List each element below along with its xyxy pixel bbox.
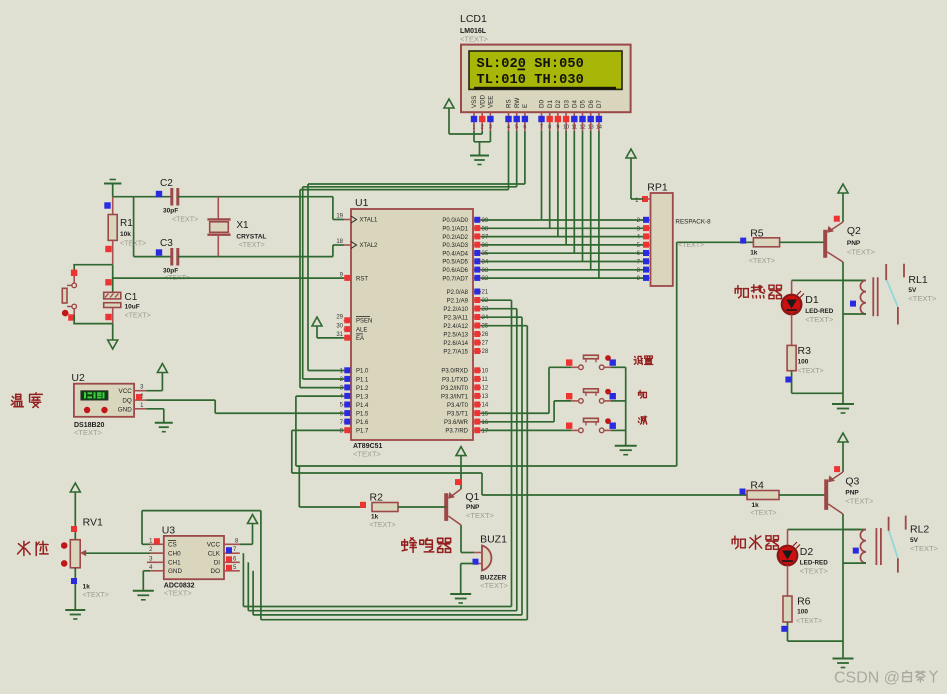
power +5V arrow (Q1)	[455, 447, 466, 489]
svg-text:VSS: VSS	[471, 96, 478, 108]
svg-text:P3.0/RXD: P3.0/RXD	[441, 369, 468, 375]
svg-text:<TEXT>: <TEXT>	[805, 315, 834, 324]
svg-text:4: 4	[507, 125, 510, 131]
svg-text:36: 36	[482, 243, 489, 249]
LCD1 LM016L display module body	[461, 45, 631, 113]
capacitor C1 10uF electrolytic	[104, 292, 151, 324]
svg-text:7: 7	[540, 125, 543, 131]
wire keys common to ground	[611, 367, 626, 445]
U1 left pins XTAL1 XTAL2 RST PSEN ALE EA	[336, 214, 378, 342]
LCD1 labels	[460, 13, 489, 44]
svg-text:1k: 1k	[371, 514, 379, 521]
svg-text:30pF: 30pF	[163, 208, 178, 215]
svg-text:VEE: VEE	[488, 96, 495, 108]
svg-text:<TEXT>: <TEXT>	[845, 497, 874, 506]
svg-text:P2.2/A10: P2.2/A10	[443, 307, 468, 313]
power +5V arrow (U3 VCC)	[240, 515, 258, 545]
svg-text:<TEXT>: <TEXT>	[172, 217, 198, 224]
svg-text:18: 18	[336, 239, 343, 245]
svg-text:D3: D3	[563, 100, 570, 108]
svg-text:R3: R3	[798, 345, 812, 357]
LCD1 pins with state squares	[471, 112, 602, 131]
svg-text:D2: D2	[800, 546, 814, 558]
svg-text:<TEXT>: <TEXT>	[800, 567, 829, 576]
svg-text:RL1: RL1	[908, 274, 927, 286]
svg-text:EA: EA	[356, 336, 364, 342]
svg-text:R6: R6	[797, 596, 811, 608]
svg-text:P1.7: P1.7	[356, 429, 369, 435]
svg-text:3: 3	[489, 125, 492, 131]
svg-text:15: 15	[482, 411, 489, 417]
svg-text:P3.5/T1: P3.5/T1	[447, 411, 469, 417]
U1 P0.0-P0.7 pins	[442, 217, 489, 282]
svg-text:CH1: CH1	[168, 560, 181, 567]
RP1 pins 2-9	[637, 217, 651, 282]
wire + key to P3.6	[481, 401, 571, 422]
watermark 白茶丫	[903, 671, 937, 682]
svg-text:<TEXT>: <TEXT>	[908, 294, 937, 303]
ADC U3 ADC0832	[147, 525, 240, 598]
svg-text:D5: D5	[580, 100, 587, 108]
wire LCD data bus D0-D7 to P0	[542, 131, 599, 278]
capacitor C2 30pF	[156, 178, 198, 224]
svg-text:P1.1: P1.1	[356, 377, 369, 383]
wire buzzer to ground	[461, 564, 474, 595]
relay RL2 coil	[843, 528, 881, 565]
svg-text:XTAL1: XTAL1	[360, 218, 379, 224]
svg-text:LCD1: LCD1	[460, 13, 487, 25]
svg-text:U1: U1	[355, 197, 369, 209]
svg-text:24: 24	[482, 315, 489, 321]
svg-text:P0.4/AD4: P0.4/AD4	[442, 251, 468, 257]
svg-text:CLK: CLK	[208, 551, 221, 558]
svg-text:RS: RS	[506, 99, 513, 108]
svg-text:TL:010 TH:030: TL:010 TH:030	[477, 73, 584, 88]
svg-text:PNP: PNP	[847, 240, 861, 247]
svg-text:P3.4/T0: P3.4/T0	[447, 403, 469, 409]
label 加	[639, 390, 647, 398]
clock chevron XTAL2	[351, 242, 357, 249]
svg-text:P1.6: P1.6	[356, 420, 369, 426]
svg-text:P3.1/TXD: P3.1/TXD	[442, 377, 469, 383]
svg-text:E: E	[522, 104, 529, 108]
svg-text:Q1: Q1	[465, 491, 479, 503]
transistor Q3 PNP	[826, 472, 874, 514]
svg-text:2: 2	[481, 125, 484, 131]
svg-text:XTAL2: XTAL2	[360, 243, 379, 249]
svg-text:P2.3/A11: P2.3/A11	[444, 315, 469, 321]
svg-text:<TEXT>: <TEXT>	[83, 592, 109, 599]
svg-text:10: 10	[482, 369, 489, 375]
wire Q1 collector to buzzer	[461, 525, 474, 553]
svg-text:11: 11	[571, 125, 577, 131]
svg-text:35: 35	[482, 251, 489, 257]
label 减	[638, 416, 647, 424]
svg-text:39: 39	[482, 218, 489, 224]
svg-text:14: 14	[596, 125, 602, 131]
svg-text:13: 13	[482, 394, 489, 400]
label 加热器	[735, 285, 781, 299]
ground (top, R1)	[104, 180, 121, 197]
ground (RV1)	[65, 610, 85, 619]
svg-text:P2.7/A15: P2.7/A15	[443, 349, 468, 355]
power +5V arrow (LCD VDD)	[444, 99, 454, 134]
key + button (加)	[566, 389, 616, 404]
svg-text:<TEXT>: <TEXT>	[125, 313, 151, 320]
ground (pump)	[833, 659, 854, 668]
wire reset junction	[73, 265, 112, 293]
svg-text:13: 13	[588, 125, 594, 131]
svg-text:<TEXT>: <TEXT>	[370, 522, 396, 529]
svg-text:R1: R1	[120, 218, 133, 229]
svg-text:DO: DO	[211, 568, 221, 575]
resistor R4 1k	[740, 480, 827, 518]
svg-text:BUZ1: BUZ1	[480, 534, 507, 546]
svg-text:P0.3/AD3: P0.3/AD3	[442, 243, 468, 249]
svg-text:P1.3: P1.3	[356, 394, 369, 400]
svg-text:<TEXT>: <TEXT>	[749, 258, 775, 265]
svg-text:DQ: DQ	[122, 398, 132, 405]
svg-text:VCC: VCC	[207, 542, 221, 549]
svg-text:33: 33	[482, 268, 489, 274]
wire C2 to XTAL1	[178, 197, 344, 220]
relay RL1 switch contacts	[886, 264, 937, 325]
svg-text:GND: GND	[168, 568, 182, 575]
watermark CSDN	[834, 670, 900, 687]
svg-text:<TEXT>: <TEXT>	[239, 242, 265, 249]
svg-text:1: 1	[472, 125, 475, 131]
svg-text:<TEXT>: <TEXT>	[910, 544, 939, 553]
svg-text:30pF: 30pF	[163, 268, 178, 275]
svg-text:D2: D2	[555, 100, 562, 108]
svg-text:<TEXT>: <TEXT>	[466, 511, 495, 520]
svg-text:8: 8	[548, 125, 551, 131]
power symbol (down arrow) below C1	[108, 340, 118, 349]
svg-text:P0.2/AD2: P0.2/AD2	[442, 235, 468, 241]
crystal X1	[207, 197, 266, 257]
wire P0 bus to RP1	[481, 220, 643, 278]
wire - key to P3.7	[481, 429, 571, 431]
svg-text:RP1: RP1	[647, 182, 668, 194]
svg-text:<TEXT>: <TEXT>	[847, 248, 876, 257]
svg-text:P1.5: P1.5	[356, 411, 369, 417]
svg-text:P2.0/A8: P2.0/A8	[447, 290, 469, 296]
resistor pack RP1 RESPACK-8	[647, 182, 711, 287]
LED D2 LED-RED	[778, 530, 829, 597]
svg-text:27: 27	[482, 341, 489, 347]
svg-text:P3.2/INT0: P3.2/INT0	[441, 386, 469, 392]
key - button (减)	[566, 418, 616, 433]
svg-text:P0.0/AD0: P0.0/AD0	[442, 218, 468, 224]
svg-text:X1: X1	[236, 220, 249, 231]
wire bottom of reset circuit	[73, 324, 112, 340]
svg-text:PNP: PNP	[845, 490, 859, 497]
svg-text:RV1: RV1	[83, 517, 103, 529]
svg-text:P1.0: P1.0	[356, 369, 369, 375]
svg-text:P3.3/INT1: P3.3/INT1	[441, 394, 469, 400]
svg-text:P2.1/A9: P2.1/A9	[447, 298, 469, 304]
transistor Q1 PNP	[446, 489, 494, 525]
svg-text:C2: C2	[160, 178, 173, 189]
power +5V arrow (RV1)	[70, 483, 80, 540]
wire P2.1-P2.4 to ADC0832 bus	[243, 300, 527, 620]
resistor R1 10k	[104, 197, 146, 265]
svg-text:12: 12	[482, 386, 489, 392]
svg-text:CH0: CH0	[168, 551, 181, 558]
resistor R2 1k	[360, 492, 446, 530]
svg-text:RW: RW	[514, 98, 521, 108]
wire SET key to P3.5	[481, 367, 571, 413]
svg-text:28: 28	[482, 349, 489, 355]
svg-text:D0: D0	[539, 100, 546, 108]
U1 P2.0-P2.7 pins	[443, 289, 489, 356]
svg-text:RST: RST	[356, 276, 368, 282]
svg-text:<TEXT>: <TEXT>	[164, 589, 193, 598]
svg-text:37: 37	[482, 235, 489, 241]
svg-text:P3.7/RD: P3.7/RD	[445, 429, 468, 435]
svg-text:34: 34	[482, 260, 489, 266]
svg-text:D6: D6	[588, 100, 595, 108]
water level label 水位	[18, 541, 48, 555]
svg-text:26: 26	[482, 332, 489, 338]
svg-text:P0.1/AD1: P0.1/AD1	[442, 227, 468, 233]
resistor R5 1k	[740, 228, 825, 266]
svg-text:9: 9	[556, 125, 559, 131]
svg-text:32: 32	[482, 276, 489, 282]
svg-text:22: 22	[482, 298, 489, 304]
svg-text:10uF: 10uF	[125, 304, 140, 311]
svg-text:P3.6/WR: P3.6/WR	[444, 420, 469, 426]
label 设置	[634, 356, 653, 365]
wire LCD RW to P1.1	[303, 131, 517, 379]
power +5V arrow (EA)	[312, 317, 344, 338]
svg-text:5V: 5V	[908, 287, 917, 294]
label 蜂鸣器	[402, 538, 451, 553]
sensor U2 DS18B20	[71, 372, 146, 437]
svg-text:P0.6/AD6: P0.6/AD6	[442, 268, 468, 274]
svg-text:CS: CS	[168, 542, 177, 549]
svg-text:LED-RED: LED-RED	[800, 560, 828, 567]
power +5V arrow (RP1)	[626, 149, 643, 199]
wire buzzer branch to R2	[299, 466, 366, 507]
wire ground rail to C2/C3	[113, 197, 172, 257]
svg-text:P1.2: P1.2	[356, 386, 369, 392]
wire P1.3 to R5 (heater drive)	[296, 242, 754, 466]
ground (keys)	[615, 446, 637, 455]
svg-text:6: 6	[523, 125, 526, 131]
ground (U3)	[133, 571, 154, 600]
svg-text:VCC: VCC	[119, 388, 133, 395]
relay RL2 switch contacts	[889, 516, 939, 573]
svg-text:GND: GND	[118, 406, 132, 413]
svg-text:25: 25	[482, 324, 489, 330]
U1 P3.0-P3.7 pins	[441, 367, 489, 434]
svg-text:RL2: RL2	[910, 524, 929, 536]
svg-text:PNP: PNP	[466, 504, 480, 511]
svg-text:Q2: Q2	[847, 225, 861, 237]
ground (LCD)	[470, 156, 489, 165]
svg-text:C1: C1	[125, 292, 138, 303]
svg-text:D1: D1	[547, 100, 554, 108]
svg-text:16: 16	[482, 420, 489, 426]
ground (U2)	[146, 409, 173, 432]
svg-text:17: 17	[482, 428, 489, 434]
svg-text:DI: DI	[214, 560, 221, 567]
svg-text:21: 21	[482, 290, 489, 296]
svg-text:<TEXT>: <TEXT>	[750, 510, 776, 517]
wire C3 to XTAL2	[178, 245, 344, 257]
wire U3 CS to bus	[142, 511, 261, 545]
svg-text:14: 14	[482, 403, 489, 409]
svg-text:11: 11	[482, 377, 489, 383]
wire LCD VSS/VEE to ground	[474, 131, 490, 156]
svg-text:<TEXT>: <TEXT>	[480, 581, 509, 590]
transistor Q2 PNP	[825, 222, 875, 262]
svg-text:P2.5/A13: P2.5/A13	[443, 332, 468, 338]
svg-text:<TEXT>: <TEXT>	[120, 241, 146, 248]
wire P1.7 to R4 (pump drive)	[292, 430, 747, 495]
svg-text:D7: D7	[596, 100, 603, 108]
microcontroller U1 AT89C51 body	[351, 197, 473, 459]
svg-text:5V: 5V	[910, 537, 919, 544]
power +5V arrow (Q3)	[834, 433, 848, 472]
svg-text:P0.5/AD5: P0.5/AD5	[442, 260, 468, 266]
svg-text:<TEXT>: <TEXT>	[353, 450, 382, 459]
U1 P1.0-P1.7 pins	[340, 367, 369, 434]
svg-text:U3: U3	[162, 525, 176, 537]
clock chevron XTAL1	[351, 216, 357, 223]
svg-text:D1: D1	[805, 294, 819, 306]
svg-text:12: 12	[579, 125, 585, 131]
wire RV1 wiper to U3 CH0	[86, 552, 164, 554]
key SET button (设置)	[566, 355, 616, 370]
wire LCD VDD to power	[449, 133, 482, 135]
svg-text:VDD: VDD	[479, 94, 486, 108]
resistor R6 100	[781, 596, 843, 642]
svg-text:100: 100	[798, 359, 809, 366]
LED D1 LED-RED	[782, 280, 834, 345]
svg-text:RESPACK-8: RESPACK-8	[675, 219, 711, 226]
wire Q2 collector node	[792, 262, 860, 404]
buzzer BUZ1	[473, 534, 509, 591]
wire LCD RS to P1.2	[300, 131, 509, 388]
label 加水器	[732, 535, 778, 549]
power +5V arrow (U2 VCC)	[146, 364, 167, 391]
svg-text:ALE: ALE	[356, 328, 367, 334]
svg-text:Q3: Q3	[845, 476, 859, 488]
svg-text:1k: 1k	[83, 584, 91, 591]
svg-text:<TEXT>: <TEXT>	[798, 368, 824, 375]
svg-text:38: 38	[482, 226, 489, 232]
svg-text:CRYSTAL: CRYSTAL	[236, 234, 266, 241]
ground (heater)	[832, 404, 854, 413]
svg-text:P2.4/A12: P2.4/A12	[443, 324, 468, 330]
ground (buzzer)	[450, 594, 471, 603]
svg-text:10k: 10k	[120, 231, 131, 238]
svg-text:10: 10	[563, 125, 569, 131]
svg-text:P0.7/AD7: P0.7/AD7	[442, 276, 468, 282]
svg-text:100: 100	[797, 609, 808, 616]
svg-text:SL:020 SH:050: SL:020 SH:050	[477, 57, 584, 72]
svg-text:29: 29	[336, 315, 343, 321]
svg-text:C3: C3	[160, 238, 173, 249]
push button (reset)	[62, 265, 77, 324]
wire Q3 collector node	[788, 514, 861, 659]
svg-text:<TEXT>: <TEXT>	[796, 618, 822, 625]
svg-text:<TEXT>: <TEXT>	[74, 428, 103, 437]
svg-text:CSDN @: CSDN @	[834, 670, 900, 687]
svg-text:D4: D4	[572, 100, 579, 108]
svg-text:P2.6/A14: P2.6/A14	[443, 341, 468, 347]
svg-text:P1.4: P1.4	[356, 403, 369, 409]
svg-text:1k: 1k	[752, 502, 760, 509]
svg-text:30: 30	[336, 324, 343, 330]
svg-text:19: 19	[336, 214, 343, 220]
svg-text:<TEXT>: <TEXT>	[460, 35, 489, 44]
temperature label 温度	[11, 393, 42, 408]
svg-text:LED-RED: LED-RED	[805, 308, 833, 315]
RP1 pin 1 (common)	[635, 196, 650, 204]
svg-text:PSEN: PSEN	[356, 319, 372, 325]
svg-text:1k: 1k	[750, 250, 758, 257]
wire RST net to U1	[113, 277, 344, 279]
wire U2 DQ to P1.5	[146, 400, 343, 413]
resistor R3 100	[785, 345, 843, 393]
svg-text:U2: U2	[71, 372, 85, 384]
svg-text:23: 23	[482, 307, 489, 313]
power +5V arrow (Q2)	[834, 184, 848, 222]
relay RL1 coil	[843, 277, 878, 316]
potentiometer RV1 1k	[61, 517, 109, 611]
capacitor C3 30pF	[156, 238, 190, 282]
svg-text:5: 5	[515, 125, 518, 131]
wire LCD E to P1.0	[308, 131, 525, 371]
